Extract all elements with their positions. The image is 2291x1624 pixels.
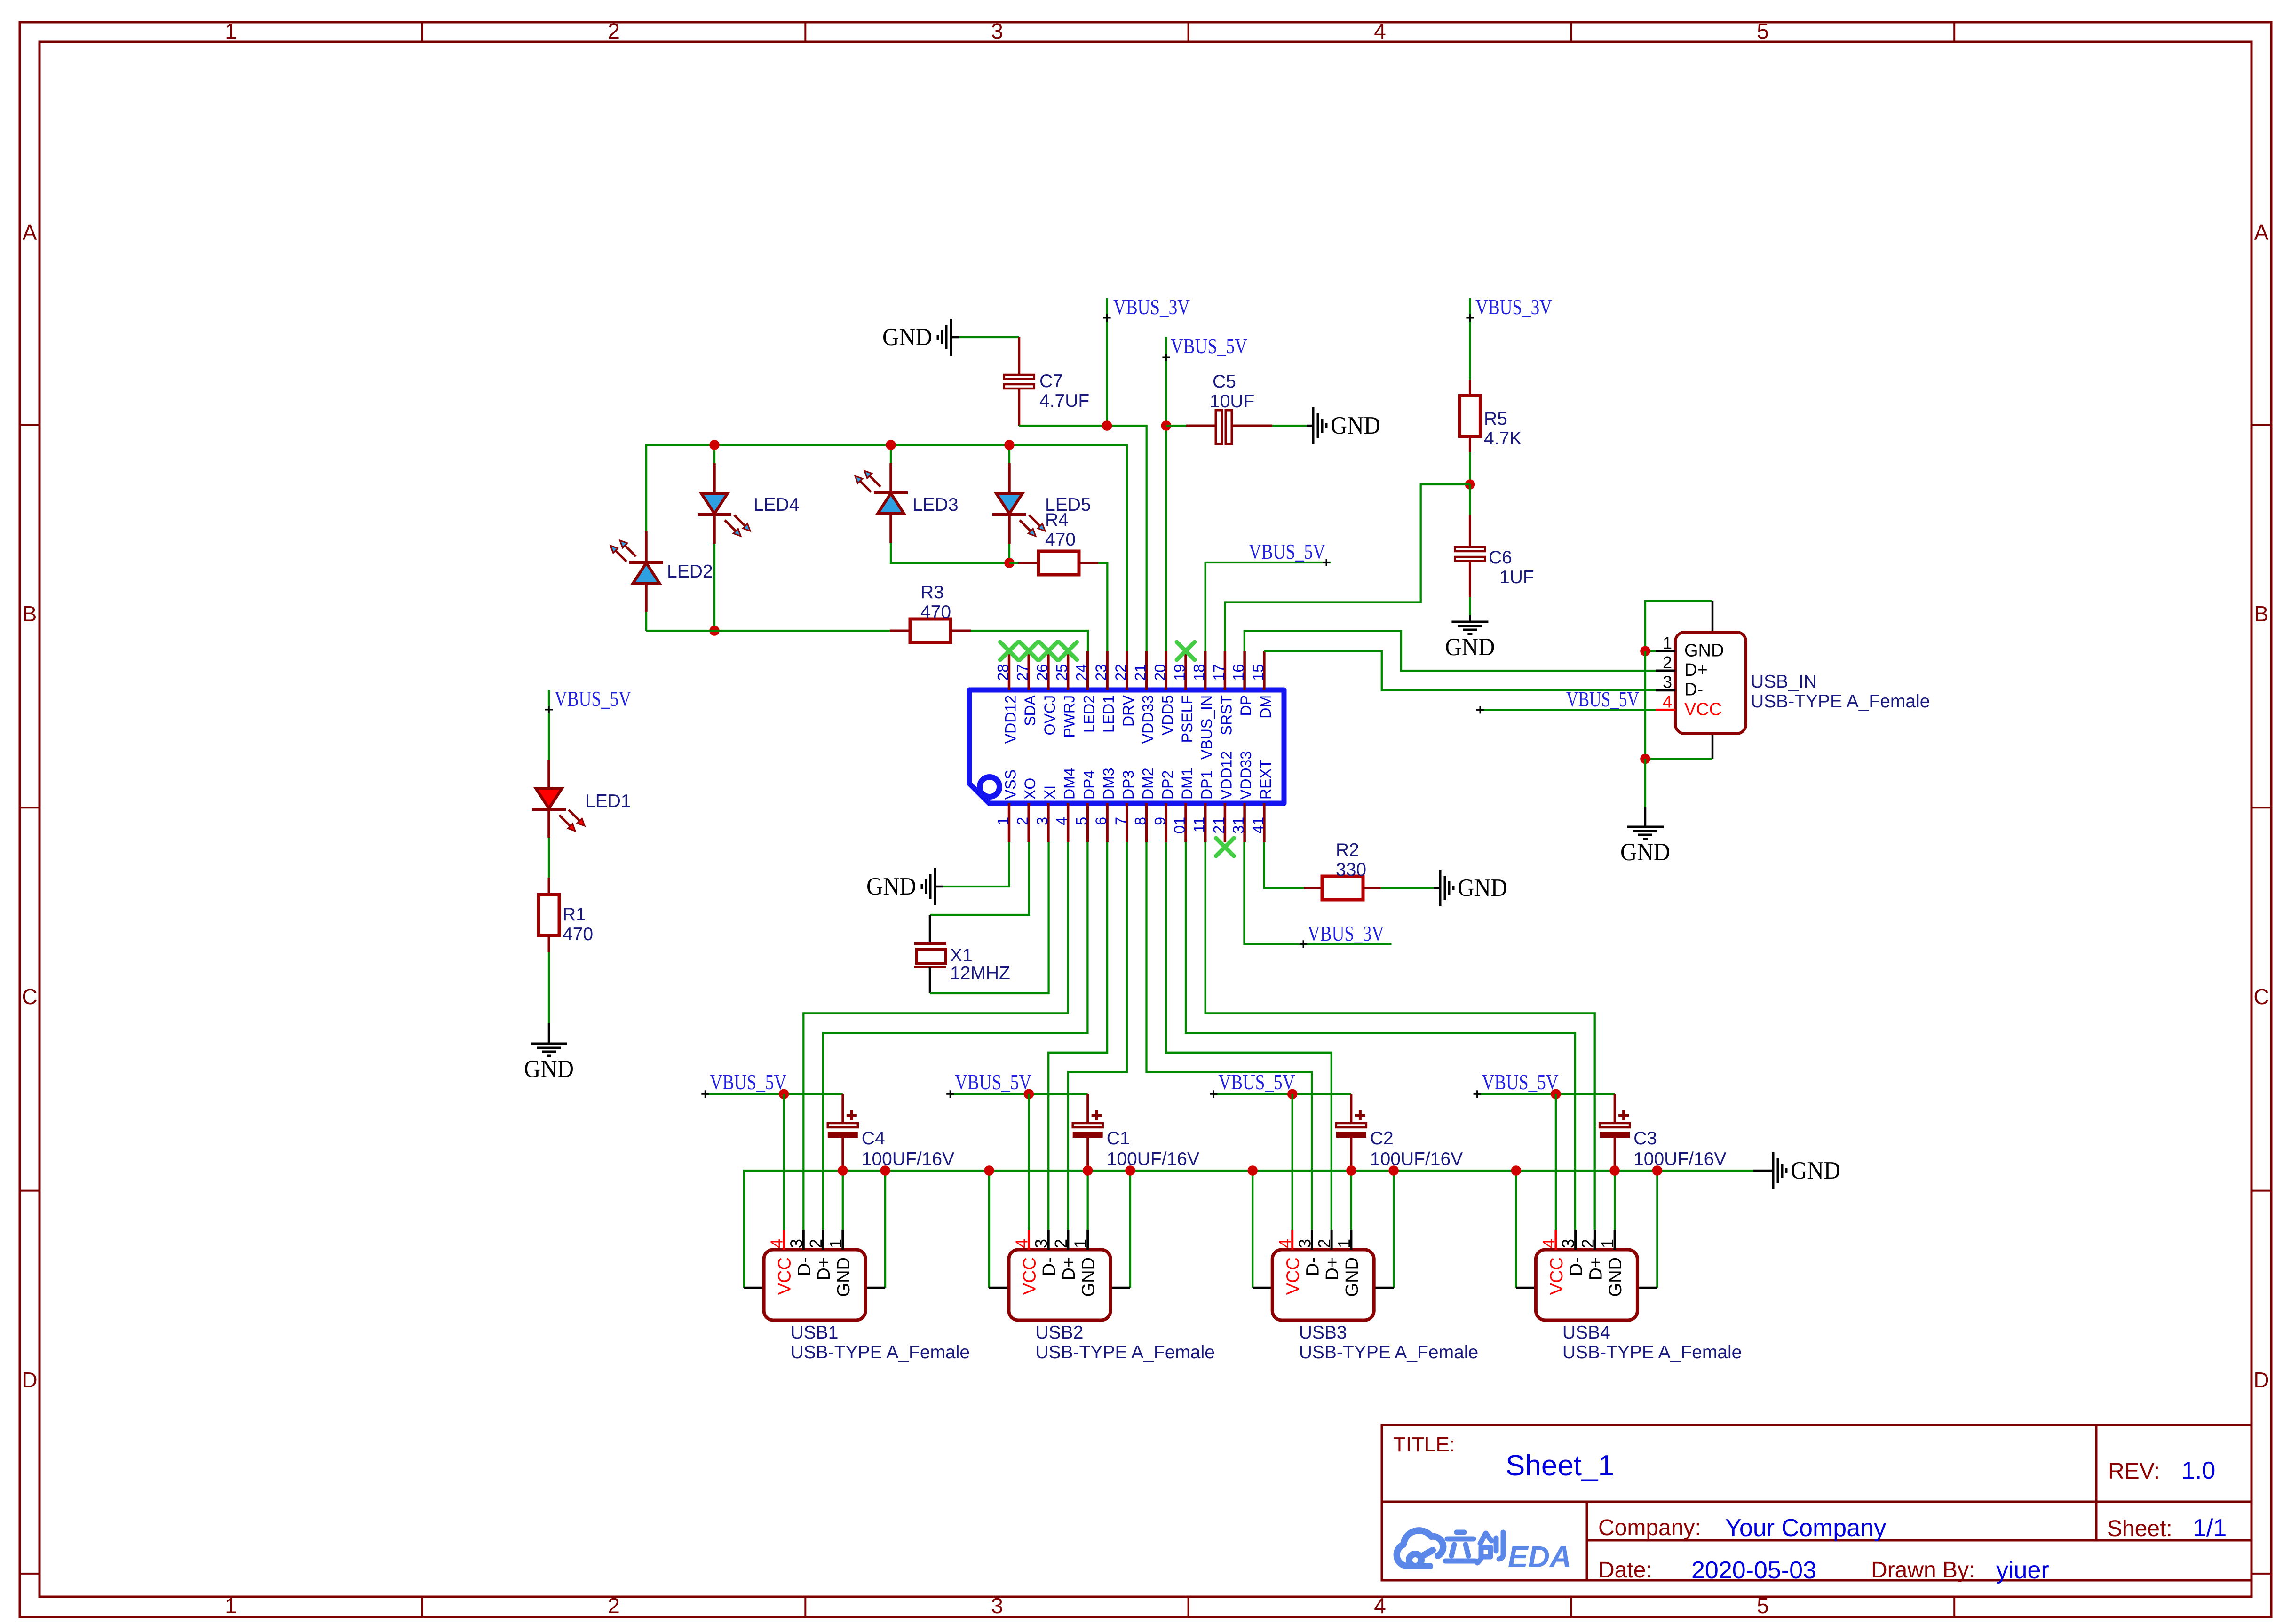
wire C5 right lead <box>1232 425 1313 427</box>
svg-text:27: 27 <box>1014 664 1031 681</box>
svg-text:4: 4 <box>1012 1239 1031 1248</box>
crystal X1 12MHZ <box>914 943 1010 983</box>
svg-text:GND: GND <box>1606 1257 1625 1297</box>
pin 17 stub (SRST) <box>1210 651 1235 735</box>
svg-text:41: 41 <box>1250 817 1267 834</box>
connector USB_IN body <box>1675 632 1746 734</box>
svg-text:28: 28 <box>995 664 1012 681</box>
svg-text:DM: DM <box>1257 695 1274 719</box>
ground GND (right of R2) <box>1440 870 1507 906</box>
capacitor C5 <box>1210 372 1254 444</box>
wire junction to pin 17 SRST <box>1225 484 1470 651</box>
svg-text:470: 470 <box>563 924 593 944</box>
no-connect X pin 27 <box>1020 642 1038 660</box>
junction (USB2 left mount on rail) <box>984 1165 994 1176</box>
svg-text:3: 3 <box>1034 817 1051 825</box>
wire USB3 VCC drop <box>1292 1094 1293 1230</box>
svg-text:100UF/16V: 100UF/16V <box>862 1149 954 1169</box>
svg-text:EDA: EDA <box>1508 1540 1571 1574</box>
svg-text:DM1: DM1 <box>1179 768 1196 800</box>
wire pin 6 DM3 to USB2 D- <box>1048 842 1107 1230</box>
svg-text:USB3: USB3 <box>1299 1323 1347 1343</box>
no-connect X pin 19 <box>1177 642 1195 660</box>
svg-text:31: 31 <box>1230 817 1247 834</box>
pin 26 stub (OVCJ) <box>1034 651 1058 735</box>
svg-text:VDD12: VDD12 <box>1218 751 1235 800</box>
USB3 pin 2 D+ <box>1315 1230 1342 1281</box>
svg-text:3: 3 <box>1663 673 1672 692</box>
wire R3 to pin 24 LED2 <box>971 631 1088 651</box>
svg-text:VBUS_IN: VBUS_IN <box>1198 695 1215 760</box>
svg-text:330: 330 <box>1336 860 1366 880</box>
svg-text:LED1: LED1 <box>1100 695 1117 733</box>
svg-text:REXT: REXT <box>1257 760 1274 800</box>
svg-text:XO: XO <box>1022 778 1038 800</box>
svg-text:LED2: LED2 <box>1080 695 1097 733</box>
pin 11 stub (DP1) <box>1191 770 1215 842</box>
ground GND (below C6) <box>1445 622 1495 661</box>
svg-text:VCC: VCC <box>1284 1257 1303 1295</box>
svg-text:DP2: DP2 <box>1159 770 1176 800</box>
svg-text:VCC: VCC <box>1684 699 1722 719</box>
USB4 pin 3 D- <box>1559 1230 1586 1276</box>
junction (USB4 VCC) <box>1551 1089 1561 1100</box>
wire USB2 VCC drop <box>1028 1094 1030 1230</box>
wire C5 left lead <box>1166 425 1216 427</box>
ground GND (C7 top) <box>882 319 1019 356</box>
net label VBUS_5V (top) <box>1162 334 1247 651</box>
svg-text:USB-TYPE A_Female: USB-TYPE A_Female <box>1036 1342 1215 1363</box>
junction (USB4 right mount on rail) <box>1652 1165 1663 1176</box>
svg-text:B: B <box>2254 602 2269 626</box>
wire USB2 mount stubs <box>989 1171 1130 1288</box>
connector USB3 body <box>1272 1250 1374 1320</box>
LED LED5 <box>992 445 1091 563</box>
svg-text:2020-05-03: 2020-05-03 <box>1691 1557 1816 1584</box>
svg-text:VDD33: VDD33 <box>1237 751 1254 800</box>
svg-text:LED1: LED1 <box>585 791 631 811</box>
svg-text:25: 25 <box>1054 664 1070 681</box>
svg-text:R5: R5 <box>1484 409 1507 429</box>
ground GND (pin 1 VSS) <box>866 868 935 905</box>
resistor R1 <box>539 878 593 952</box>
svg-text:15: 15 <box>1250 664 1267 681</box>
pin 14 stub (REXT) <box>1250 760 1274 842</box>
no-connect X pin 28 <box>1000 642 1018 660</box>
junction (LED4 top) <box>709 440 720 450</box>
svg-text:R2: R2 <box>1336 840 1359 860</box>
junction (USB_IN bottom/GND) <box>1640 754 1650 764</box>
svg-text:8: 8 <box>1132 817 1149 825</box>
USB4 pin 1 GND <box>1598 1230 1625 1297</box>
svg-text:2: 2 <box>1578 1239 1597 1248</box>
svg-text:6: 6 <box>1093 817 1110 825</box>
svg-text:GND: GND <box>1620 839 1670 866</box>
svg-text:9: 9 <box>1151 817 1168 825</box>
wire pin 4 DM4 to USB1 D- <box>803 842 1068 1230</box>
svg-text:REV:: REV: <box>2108 1459 2160 1484</box>
junction (USB3 left mount on rail) <box>1247 1165 1258 1176</box>
svg-text:21: 21 <box>1132 664 1149 681</box>
pin 27 stub (SDA) <box>1014 651 1038 726</box>
svg-text:C4: C4 <box>862 1128 885 1149</box>
svg-text:26: 26 <box>1034 664 1051 681</box>
pin 5 stub (DP4) <box>1073 770 1097 842</box>
svg-text:DP: DP <box>1237 695 1254 716</box>
logo LCEDA (立创EDA) <box>1397 1530 1572 1574</box>
junction (VBUS_3V / C7 wire) <box>1102 420 1112 431</box>
svg-text:1: 1 <box>1334 1239 1354 1248</box>
connector USB2 body <box>1009 1250 1110 1320</box>
wire USB1 mount stubs <box>744 1171 885 1288</box>
capacitor C4 100UF/16V <box>828 1094 954 1171</box>
USB3 pin 3 D- <box>1295 1230 1323 1276</box>
svg-text:3: 3 <box>1295 1239 1314 1248</box>
svg-text:3: 3 <box>1031 1239 1051 1248</box>
wire C6 to ground <box>1469 597 1471 622</box>
svg-text:1: 1 <box>1598 1239 1617 1248</box>
svg-text:VDD5: VDD5 <box>1159 695 1176 735</box>
svg-text:GND: GND <box>1079 1257 1099 1297</box>
svg-text:R1: R1 <box>563 904 586 925</box>
svg-text:GND: GND <box>866 873 916 900</box>
USB_IN pin 3 D- <box>1656 673 1703 700</box>
svg-text:VBUS_5V: VBUS_5V <box>1218 1070 1295 1094</box>
svg-text:D-: D- <box>1684 680 1703 700</box>
svg-text:DP4: DP4 <box>1080 770 1097 800</box>
svg-text:DM4: DM4 <box>1061 768 1078 800</box>
USB_IN pin 2 D+ <box>1656 653 1708 680</box>
svg-text:DP1: DP1 <box>1198 770 1215 800</box>
resistor R5 <box>1459 380 1522 452</box>
net label VBUS_5V (LED1) <box>545 687 631 760</box>
wire pin 2 XO to crystal <box>930 842 1029 943</box>
svg-text:C5: C5 <box>1213 372 1236 392</box>
svg-text:PSELF: PSELF <box>1179 695 1196 743</box>
junction (USB1 VCC) <box>779 1089 789 1100</box>
pin 2 stub (XO) <box>1014 778 1038 842</box>
wire USB1 GND pin <box>842 1171 844 1230</box>
svg-text:OVCJ: OVCJ <box>1041 695 1058 735</box>
wire USB1 VCC drop <box>783 1094 785 1230</box>
svg-text:Company:: Company: <box>1598 1515 1701 1540</box>
label USB2 <box>1036 1323 1215 1363</box>
junction (USB3 right mount on rail) <box>1388 1165 1399 1176</box>
LED LED4 <box>698 445 800 631</box>
svg-text:USB4: USB4 <box>1562 1323 1610 1343</box>
pin 9 stub (DP2) <box>1151 770 1176 842</box>
svg-text:USB1: USB1 <box>791 1323 839 1343</box>
wire USB_IN left vertical to bottom <box>1644 651 1646 759</box>
pin 23 stub (LED1) <box>1093 651 1117 733</box>
pin 13 stub (VDD33) <box>1230 751 1254 842</box>
svg-text:D-: D- <box>794 1257 814 1276</box>
svg-text:XI: XI <box>1041 785 1058 800</box>
pin 20 stub (VDD5) <box>1151 651 1176 735</box>
svg-text:24: 24 <box>1073 664 1090 681</box>
svg-text:X1: X1 <box>950 945 973 966</box>
svg-text:VBUS_5V: VBUS_5V <box>1482 1070 1559 1094</box>
USB3 pin 1 GND <box>1334 1230 1362 1297</box>
no-connect X pin 25 <box>1059 642 1077 660</box>
svg-text:C1: C1 <box>1107 1128 1130 1149</box>
svg-text:D: D <box>22 1368 37 1392</box>
svg-text:21: 21 <box>1210 817 1227 834</box>
svg-text:100UF/16V: 100UF/16V <box>1633 1149 1726 1169</box>
junction (USB1 right mount on rail) <box>880 1165 890 1176</box>
junction (USB4 left mount on rail) <box>1511 1165 1522 1176</box>
wire pin 14 REXT to R2 <box>1264 842 1304 888</box>
connector USB4 body <box>1536 1250 1637 1320</box>
svg-text:VCC: VCC <box>1020 1257 1040 1295</box>
resistor R4 <box>1009 510 1098 575</box>
USB1 pin 3 D- <box>786 1230 814 1276</box>
svg-text:GND: GND <box>1684 641 1724 660</box>
junction (C1/USB2 GND on rail) <box>1083 1165 1093 1176</box>
svg-text:D+: D+ <box>1059 1257 1079 1281</box>
pin 4 stub (DM4) <box>1054 768 1078 842</box>
junction (LED4 bottom) <box>709 626 720 636</box>
svg-text:GND: GND <box>1458 874 1507 902</box>
svg-text:A: A <box>23 220 37 245</box>
svg-text:GND: GND <box>1331 412 1380 439</box>
svg-text:23: 23 <box>1093 664 1110 681</box>
svg-text:GND: GND <box>524 1055 574 1083</box>
svg-text:DRV: DRV <box>1120 695 1137 727</box>
pin 16 stub (DP) <box>1230 651 1254 716</box>
svg-text:LED4: LED4 <box>753 495 800 515</box>
junction (USB2 VCC) <box>1024 1089 1034 1100</box>
svg-text:4: 4 <box>767 1239 786 1248</box>
USB2 pin 2 D+ <box>1051 1230 1079 1281</box>
label USB4 <box>1562 1323 1742 1363</box>
svg-text:PWRJ: PWRJ <box>1061 695 1078 738</box>
capacitor C7 <box>1004 371 1089 411</box>
svg-text:LED3: LED3 <box>912 495 959 515</box>
pin 15 stub (DM) <box>1250 651 1274 719</box>
wire DP (pin 16) to USB_IN D+ <box>1245 631 1656 671</box>
svg-text:SDA: SDA <box>1022 695 1038 726</box>
svg-text:1UF: 1UF <box>1499 567 1534 587</box>
svg-text:VSS: VSS <box>1002 769 1019 800</box>
svg-text:VDD12: VDD12 <box>1002 695 1019 744</box>
svg-text:LED2: LED2 <box>667 562 713 582</box>
svg-text:5: 5 <box>1757 19 1769 43</box>
svg-text:R3: R3 <box>920 582 944 602</box>
svg-text:D+: D+ <box>1586 1257 1606 1281</box>
pin 19 stub (PSELF) <box>1171 651 1196 743</box>
ground GND (right of C5) <box>1313 407 1380 444</box>
svg-text:D-: D- <box>1039 1257 1059 1276</box>
svg-text:D-: D- <box>1567 1257 1586 1276</box>
svg-text:VBUS_5V: VBUS_5V <box>555 687 631 711</box>
svg-text:2: 2 <box>608 1593 620 1618</box>
wire LED1 to R1 <box>548 838 550 878</box>
svg-text:4.7UF: 4.7UF <box>1039 391 1089 411</box>
wire pin 1 VSS to ground <box>935 842 1009 887</box>
wire pin 5 DP4 to USB1 D+ <box>823 842 1087 1230</box>
wire R5 to junction <box>1469 452 1471 484</box>
pin 22 stub (DRV) <box>1112 651 1137 727</box>
svg-text:B: B <box>23 602 37 626</box>
net label VBUS_5V (USB4 VCC) <box>1474 1070 1615 1098</box>
svg-text:2: 2 <box>1315 1239 1334 1248</box>
pin 18 stub (VBUS_IN) <box>1191 651 1215 760</box>
svg-text:1: 1 <box>225 1593 237 1618</box>
svg-text:DM2: DM2 <box>1140 768 1157 800</box>
svg-text:1: 1 <box>826 1239 845 1248</box>
svg-text:2: 2 <box>806 1239 825 1248</box>
wire LED anode rail (DRV net, pin 22) <box>646 445 1127 651</box>
wire C7 top lead <box>1018 337 1020 375</box>
svg-text:D-: D- <box>1303 1257 1323 1276</box>
svg-text:GND: GND <box>834 1257 854 1297</box>
USB1 pin 1 GND <box>826 1230 854 1297</box>
wire USB3 mount stubs <box>1253 1171 1394 1288</box>
svg-text:DM3: DM3 <box>1100 768 1117 800</box>
svg-text:D+: D+ <box>1323 1257 1342 1281</box>
wire USB2 GND pin <box>1087 1171 1089 1230</box>
junction (LED5/LED3/R4 node) <box>1004 558 1015 568</box>
pin 25 stub (PWRJ) <box>1054 651 1078 738</box>
pin 6 stub (DM3) <box>1093 768 1117 842</box>
svg-text:TITLE:: TITLE: <box>1393 1433 1455 1456</box>
svg-text:4: 4 <box>1054 817 1070 825</box>
label USB1 <box>791 1323 970 1363</box>
svg-text:VBUS_5V: VBUS_5V <box>1566 688 1639 711</box>
net label VBUS_3V (pin 13 VDD33) <box>1245 842 1392 948</box>
wire USB_IN bottom mount loop <box>1645 734 1712 759</box>
svg-text:VBUS_3V: VBUS_3V <box>1308 922 1384 945</box>
svg-text:VCC: VCC <box>775 1257 795 1295</box>
svg-text:4: 4 <box>1663 692 1672 711</box>
LED LED1 <box>532 760 631 838</box>
svg-text:4.7K: 4.7K <box>1484 428 1522 449</box>
junction (VBUS_5V / C5 wire) <box>1161 420 1172 431</box>
svg-text:VDD33: VDD33 <box>1140 695 1157 744</box>
svg-text:VBUS_5V: VBUS_5V <box>955 1070 1031 1094</box>
junction (C3/USB4 GND on rail) <box>1609 1165 1620 1176</box>
USB2 pin 4 VCC <box>1012 1230 1040 1295</box>
svg-text:100UF/16V: 100UF/16V <box>1107 1149 1199 1169</box>
svg-text:4: 4 <box>1374 19 1386 43</box>
svg-text:3: 3 <box>991 1593 1003 1618</box>
svg-text:16: 16 <box>1230 664 1247 681</box>
svg-text:D+: D+ <box>1684 660 1708 680</box>
svg-text:5: 5 <box>1073 817 1090 825</box>
svg-text:Your Company: Your Company <box>1725 1514 1886 1542</box>
svg-text:3: 3 <box>1559 1239 1578 1248</box>
svg-text:2: 2 <box>1014 817 1031 825</box>
wire R2 to ground <box>1381 887 1440 889</box>
ground GND (rail right) <box>1773 1152 1840 1189</box>
USB_IN pin 1 GND <box>1656 633 1724 660</box>
svg-text:VBUS_5V: VBUS_5V <box>1249 540 1325 563</box>
wire USB_IN top mount loop <box>1645 601 1712 651</box>
svg-text:100UF/16V: 100UF/16V <box>1370 1149 1463 1169</box>
svg-text:4: 4 <box>1539 1239 1558 1248</box>
pin 7 stub (DP3) <box>1112 770 1137 842</box>
capacitor C6 <box>1455 484 1534 597</box>
wire R1 to ground <box>548 952 550 1044</box>
wire bottom GND rail <box>744 1171 1773 1288</box>
svg-text:20: 20 <box>1151 664 1168 681</box>
USB2 pin 3 D- <box>1031 1230 1059 1276</box>
svg-text:SRST: SRST <box>1218 695 1235 735</box>
svg-text:yiuer: yiuer <box>1996 1557 2049 1584</box>
svg-text:GND: GND <box>882 324 932 351</box>
svg-text:A: A <box>2254 220 2269 245</box>
label USB_IN <box>1751 672 1930 712</box>
pin 8 stub (DM2) <box>1132 768 1157 842</box>
svg-text:3: 3 <box>991 19 1003 43</box>
svg-text:10UF: 10UF <box>1210 391 1254 412</box>
svg-text:18: 18 <box>1191 664 1208 681</box>
svg-text:1: 1 <box>1663 633 1672 652</box>
svg-text:USB-TYPE A_Female: USB-TYPE A_Female <box>791 1342 970 1363</box>
wire R4 to pin 23 LED1 <box>1098 563 1107 651</box>
junction (USB2 right mount on rail) <box>1125 1165 1135 1176</box>
connector USB1 body <box>764 1250 865 1320</box>
net label VBUS_5V (USB_IN VCC) <box>1476 688 1656 713</box>
title block <box>1382 1425 2251 1584</box>
net label VBUS_3V (R5 top) <box>1466 295 1552 380</box>
svg-text:Sheet_1: Sheet_1 <box>1506 1450 1614 1482</box>
svg-text:2: 2 <box>608 19 620 43</box>
junction (USB_IN pin1/top loop) <box>1640 646 1650 657</box>
pin 24 stub (LED2) <box>1073 651 1097 733</box>
svg-text:5: 5 <box>1757 1593 1769 1618</box>
USB3 pin 4 VCC <box>1276 1230 1303 1295</box>
svg-text:GND: GND <box>1342 1257 1362 1297</box>
junction (LED5 top) <box>1004 440 1015 450</box>
svg-text:2: 2 <box>1051 1239 1070 1248</box>
svg-text:470: 470 <box>1045 530 1076 550</box>
svg-text:VBUS_5V: VBUS_5V <box>710 1070 786 1094</box>
wire pin 9 DP2 to USB3 D+ <box>1166 842 1332 1230</box>
svg-text:19: 19 <box>1171 664 1188 681</box>
wire USB_IN pin 1 GND <box>1645 650 1656 652</box>
net label VBUS_5V (USB2 VCC) <box>946 1070 1088 1098</box>
junction (USB3 VCC) <box>1287 1089 1298 1100</box>
no-connect X pin 26 <box>1039 642 1057 660</box>
svg-text:Date:: Date: <box>1598 1558 1652 1583</box>
wire USB4 mount stubs <box>1516 1171 1657 1288</box>
svg-text:D: D <box>2253 1368 2269 1392</box>
svg-text:470: 470 <box>920 602 951 622</box>
USB4 pin 2 D+ <box>1578 1230 1606 1281</box>
svg-text:C: C <box>22 984 37 1009</box>
svg-text:Drawn By:: Drawn By: <box>1871 1558 1975 1583</box>
capacitor C2 100UF/16V <box>1336 1094 1463 1171</box>
svg-text:4: 4 <box>1374 1593 1386 1618</box>
wire C7 bottom to VBUS_3V junction and pin 21 <box>1019 388 1147 651</box>
svg-text:C2: C2 <box>1370 1128 1394 1149</box>
wire pin 10 DM1 to USB4 D- <box>1186 842 1575 1230</box>
label USB3 <box>1299 1323 1478 1363</box>
junction (R5/C6/SRST) <box>1465 479 1475 490</box>
svg-text:C3: C3 <box>1633 1128 1657 1149</box>
wire pin 11 DP1 to USB4 D+ <box>1205 842 1595 1230</box>
wire USB4 GND pin <box>1614 1171 1616 1230</box>
USB_IN pin 4 VCC <box>1656 692 1722 719</box>
svg-text:1: 1 <box>995 817 1012 825</box>
junction (C4/USB1 GND on rail) <box>838 1165 848 1176</box>
LED LED2 <box>610 445 713 631</box>
svg-text:C: C <box>2253 984 2269 1009</box>
svg-text:C6: C6 <box>1489 547 1512 568</box>
svg-text:01: 01 <box>1171 817 1188 834</box>
